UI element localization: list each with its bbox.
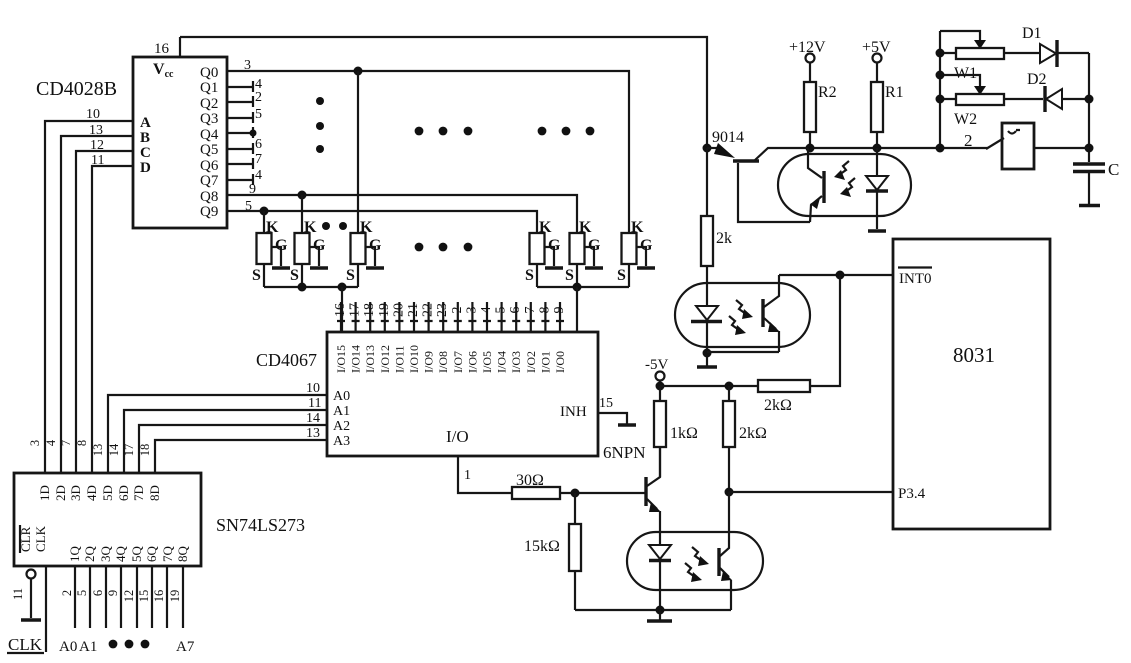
svg-text:CD4067: CD4067 xyxy=(256,350,317,370)
svg-text:19: 19 xyxy=(168,590,182,603)
potentiometer W1 xyxy=(940,31,1040,82)
svg-text:Q8: Q8 xyxy=(200,189,218,205)
svg-text:INT0: INT0 xyxy=(899,271,932,287)
svg-text:17: 17 xyxy=(348,303,363,317)
pin numbers of D inputs xyxy=(28,439,152,456)
svg-text:9: 9 xyxy=(106,590,120,596)
svg-text:6NPN: 6NPN xyxy=(603,443,646,462)
svg-text:10: 10 xyxy=(306,381,320,396)
pins I/O15..I/O0 of U2 top xyxy=(333,302,567,373)
svg-text:A0: A0 xyxy=(333,389,350,404)
svg-text:Q4: Q4 xyxy=(200,127,219,143)
svg-text:I/O11: I/O11 xyxy=(392,345,406,373)
svg-text:22: 22 xyxy=(421,303,436,317)
ground below O2 xyxy=(697,365,717,368)
node INT0 branch xyxy=(836,271,845,280)
node W2 loop xyxy=(936,71,945,80)
optocoupler O2 body xyxy=(675,283,810,347)
node left bus to CD4067 pin16 xyxy=(338,283,347,292)
svg-text:16: 16 xyxy=(154,41,170,57)
wire W bus left vertical xyxy=(939,31,941,148)
svg-text:6Q: 6Q xyxy=(144,546,159,563)
svg-text:4Q: 4Q xyxy=(113,546,128,563)
svg-text:B: B xyxy=(140,130,150,146)
svg-text:I/O13: I/O13 xyxy=(363,345,377,373)
diode inside O1 xyxy=(866,148,888,229)
pin stub Q5 xyxy=(227,137,262,154)
svg-text:2: 2 xyxy=(255,90,262,105)
wire right bus vertical D1 to capacitor xyxy=(1088,53,1090,162)
wire input D to 4D column xyxy=(92,166,133,473)
svg-text:20: 20 xyxy=(391,303,406,317)
pin stub Q4 xyxy=(227,127,257,138)
wire left key group bottom bus xyxy=(264,286,358,288)
svg-text:S: S xyxy=(525,267,534,284)
transistor 9014 PNP xyxy=(707,129,808,161)
labels A0 A1 ... A7 xyxy=(59,639,195,655)
svg-text:6: 6 xyxy=(91,590,105,596)
wire 7D to A2 xyxy=(139,425,327,473)
svg-text:A7: A7 xyxy=(176,639,195,655)
svg-text:16: 16 xyxy=(152,590,166,603)
svg-text:I/O12: I/O12 xyxy=(378,345,392,373)
wire 8D to A3 xyxy=(155,440,327,473)
svg-text:I/O3: I/O3 xyxy=(509,351,523,373)
node Q8/K2 junction xyxy=(298,191,307,200)
LED inside O2 xyxy=(691,283,722,366)
svg-text:21: 21 xyxy=(406,303,421,317)
wire -5V rail xyxy=(660,385,758,387)
resistor 15k ohm xyxy=(524,493,581,610)
svg-text:13: 13 xyxy=(306,426,320,441)
switch/relay box xyxy=(1002,123,1089,169)
svg-text:1kΩ: 1kΩ xyxy=(670,425,698,442)
svg-text:5: 5 xyxy=(255,107,262,122)
IC U4 8031 xyxy=(893,239,1050,529)
optocoupler O3 body xyxy=(627,532,763,590)
svg-text:4D: 4D xyxy=(84,485,99,501)
svg-text:8D: 8D xyxy=(147,485,162,501)
node R2 bottom xyxy=(806,144,815,153)
svg-text:W2: W2 xyxy=(954,111,977,128)
svg-text:8031: 8031 xyxy=(953,343,995,367)
wire O3 bottom bus xyxy=(575,609,731,611)
pin stub Q1 xyxy=(227,77,262,92)
wire to P3.4 of 8031 xyxy=(729,491,893,493)
svg-text:A: A xyxy=(140,115,151,131)
svg-text:15: 15 xyxy=(137,590,151,603)
pin stub Q6 xyxy=(227,152,262,169)
svg-text:8Q: 8Q xyxy=(175,546,190,563)
svg-text:11: 11 xyxy=(308,396,321,411)
svg-text:10: 10 xyxy=(86,107,100,122)
svg-text:D2: D2 xyxy=(1027,71,1047,88)
diode D1 xyxy=(1022,25,1089,67)
svg-text:K: K xyxy=(304,219,317,236)
wire Q8 rail to K5 column xyxy=(227,195,577,233)
resistor 1k ohm xyxy=(654,386,698,477)
svg-text:17: 17 xyxy=(122,444,136,457)
svg-text:S: S xyxy=(617,267,626,284)
svg-text:16: 16 xyxy=(333,303,348,317)
wire 5D to A0 xyxy=(108,395,327,473)
svg-text:1Q: 1Q xyxy=(67,546,82,563)
node W2 left xyxy=(936,95,945,104)
svg-text:I/O: I/O xyxy=(446,427,469,446)
svg-text:A0: A0 xyxy=(59,639,77,655)
svg-text:G: G xyxy=(369,237,382,254)
wire base of 9014 to optocoupler O1 emitter xyxy=(738,163,810,222)
wire Q9 rail to K4 column xyxy=(227,211,537,233)
ground below O3 xyxy=(647,610,672,621)
svg-text:2: 2 xyxy=(60,590,74,596)
svg-text:P3.4: P3.4 xyxy=(898,486,926,502)
IC U2 CD4067 xyxy=(256,332,598,456)
svg-text:Q7: Q7 xyxy=(200,173,219,189)
pin stub Q3 xyxy=(227,107,262,123)
ellipsis dots in key row middle xyxy=(415,243,473,252)
svg-text:I/O7: I/O7 xyxy=(451,351,465,373)
node K2 on left bus xyxy=(298,283,307,292)
svg-text:18: 18 xyxy=(138,444,152,457)
IC U1 CD4028B xyxy=(36,57,227,228)
pin 16 Vcc stub of U1 xyxy=(154,37,180,57)
svg-text:A3: A3 xyxy=(333,434,350,449)
wire input B to 2D column xyxy=(61,136,133,473)
svg-text:2: 2 xyxy=(964,131,973,150)
svg-text:4: 4 xyxy=(44,439,58,446)
svg-text:5: 5 xyxy=(494,307,509,314)
ellipsis dots between K2 and K3 xyxy=(322,222,347,230)
svg-text:I/O15: I/O15 xyxy=(334,345,348,373)
pin labels 1Q-8Q of U3 xyxy=(67,546,190,563)
resistor R1 xyxy=(862,39,904,148)
svg-text:G: G xyxy=(588,237,601,254)
wire O2 collector to INT0 of 8031 xyxy=(779,274,893,276)
svg-text:D: D xyxy=(140,160,151,176)
svg-text:I/O10: I/O10 xyxy=(407,345,421,373)
svg-text:12: 12 xyxy=(122,590,136,603)
svg-text:30Ω: 30Ω xyxy=(516,472,544,489)
pin stub Q7 xyxy=(227,168,262,185)
svg-text:9014: 9014 xyxy=(712,129,744,146)
svg-text:2Q: 2Q xyxy=(82,546,97,563)
svg-text:S: S xyxy=(290,267,299,284)
svg-text:2kΩ: 2kΩ xyxy=(764,397,792,414)
svg-text:G: G xyxy=(640,237,653,254)
phototransistor inside O3 xyxy=(685,492,732,610)
svg-text:15: 15 xyxy=(599,396,613,411)
capacitor C xyxy=(1073,160,1119,204)
ground below capacitor C xyxy=(1079,204,1100,207)
svg-text:7: 7 xyxy=(59,440,73,446)
svg-text:G: G xyxy=(548,237,561,254)
wires Q outputs of U3 xyxy=(75,566,183,628)
svg-text:3D: 3D xyxy=(68,485,83,501)
node O3 ground xyxy=(656,606,665,615)
key unit K3 xyxy=(346,71,384,287)
svg-text:-5V: -5V xyxy=(645,357,668,373)
svg-text:K: K xyxy=(631,219,644,236)
pin 1 common I/O of U2 xyxy=(458,456,512,493)
svg-text:G: G xyxy=(313,237,326,254)
svg-text:3: 3 xyxy=(464,307,479,314)
node D2 right xyxy=(1085,95,1094,104)
svg-text:R1: R1 xyxy=(885,84,904,101)
phototransistor inside O2 xyxy=(729,275,780,335)
svg-text:W1: W1 xyxy=(954,65,977,82)
resistor 2k ohm vertical xyxy=(723,386,767,492)
svg-text:K: K xyxy=(539,219,552,236)
key unit K6 xyxy=(617,219,655,287)
label CLK underlined xyxy=(7,635,44,654)
wire 6D to A1 xyxy=(124,410,327,473)
wire right key group bottom bus xyxy=(537,286,629,288)
diode D2 xyxy=(1027,71,1089,112)
pin 1 CLR bubble and ground xyxy=(11,570,41,621)
optocoupler O1 body xyxy=(778,154,911,216)
svg-text:K: K xyxy=(266,219,279,236)
svg-text:G: G xyxy=(275,237,288,254)
svg-text:S: S xyxy=(346,267,355,284)
svg-text:2: 2 xyxy=(450,307,465,314)
node collector 2k junction P3.4 xyxy=(725,488,734,497)
svg-text:2D: 2D xyxy=(53,485,68,501)
svg-text:2k: 2k xyxy=(716,230,732,247)
svg-text:Q1: Q1 xyxy=(200,80,218,96)
svg-text:I/O5: I/O5 xyxy=(480,351,494,373)
svg-text:8: 8 xyxy=(537,307,552,314)
svg-text:Q2: Q2 xyxy=(200,96,218,112)
svg-text:7: 7 xyxy=(523,307,538,314)
svg-text:1: 1 xyxy=(464,468,471,483)
svg-text:1D: 1D xyxy=(37,485,52,501)
resistor R2 xyxy=(789,39,837,148)
node Q0/K3 junction xyxy=(354,67,363,76)
wire O2 emitter return xyxy=(707,331,779,352)
svg-text:5Q: 5Q xyxy=(129,546,144,563)
svg-text:Q0: Q0 xyxy=(200,65,218,81)
svg-text:6: 6 xyxy=(508,307,523,314)
svg-text:I/O6: I/O6 xyxy=(465,351,479,373)
svg-text:I/O9: I/O9 xyxy=(422,351,436,373)
svg-text:18: 18 xyxy=(362,303,377,317)
svg-text:3: 3 xyxy=(244,58,251,73)
svg-text:Q6: Q6 xyxy=(200,158,219,174)
svg-text:INH: INH xyxy=(560,404,587,420)
node K5 on right bus xyxy=(573,283,582,292)
terminal -5V xyxy=(645,357,668,386)
svg-text:5D: 5D xyxy=(100,485,115,501)
IC U3 SN74LS273 xyxy=(14,473,305,566)
svg-text:6D: 6D xyxy=(116,485,131,501)
svg-text:K: K xyxy=(579,219,592,236)
svg-text:2kΩ: 2kΩ xyxy=(739,425,767,442)
svg-text:SN74LS273: SN74LS273 xyxy=(216,515,305,535)
ground below O1 diode xyxy=(868,229,886,232)
svg-text:I/O2: I/O2 xyxy=(524,351,538,373)
key unit K5 xyxy=(565,219,603,287)
svg-text:15kΩ: 15kΩ xyxy=(524,538,560,555)
wire input C to 3D column xyxy=(76,151,133,473)
svg-text:I/O1: I/O1 xyxy=(538,351,552,373)
key unit K2 xyxy=(290,195,328,287)
svg-text:A1: A1 xyxy=(333,404,350,419)
svg-text:4: 4 xyxy=(255,168,262,183)
svg-text:14: 14 xyxy=(107,443,121,456)
node Q9/K1 junction xyxy=(260,207,269,216)
svg-text:I/O0: I/O0 xyxy=(553,351,567,373)
svg-text:4: 4 xyxy=(479,307,494,314)
svg-text:R2: R2 xyxy=(818,84,837,101)
svg-text:I/O14: I/O14 xyxy=(349,345,363,373)
svg-text:I/O8: I/O8 xyxy=(436,351,450,373)
pin stub Q2 xyxy=(227,90,262,107)
svg-text:8: 8 xyxy=(75,440,89,446)
svg-text:K: K xyxy=(360,219,373,236)
svg-text:C: C xyxy=(140,145,151,161)
wire Q0 rail to K6 column xyxy=(227,71,629,233)
resistor 30 ohm xyxy=(512,472,646,499)
key unit K1 xyxy=(252,211,290,287)
svg-text:S: S xyxy=(252,267,261,284)
svg-text:D1: D1 xyxy=(1022,25,1042,42)
svg-text:CLK: CLK xyxy=(33,525,48,552)
node 30 ohm / 15k junction xyxy=(571,489,580,498)
svg-text:9: 9 xyxy=(552,307,567,314)
svg-text:3: 3 xyxy=(28,440,42,446)
node O2 LED cathode / emitter return xyxy=(703,349,712,358)
pin labels 1D-8D of U3 xyxy=(37,485,162,501)
pin CLR of U3 with overline xyxy=(18,525,33,553)
svg-text:11: 11 xyxy=(11,588,25,600)
node W1 left xyxy=(936,49,945,58)
pin numbers of Q outputs xyxy=(60,590,182,603)
LED inside O3 xyxy=(649,545,671,610)
key unit K4 xyxy=(525,219,563,287)
wire INT0 node down to 2k ohm resistor xyxy=(810,275,840,386)
svg-text:7D: 7D xyxy=(131,485,146,501)
svg-text:CLK: CLK xyxy=(8,635,43,654)
wire left bus down to CD4067 I/O15 pin xyxy=(341,287,343,332)
node W bus on rail xyxy=(936,144,945,153)
node rail right end xyxy=(1085,144,1094,153)
svg-text:7Q: 7Q xyxy=(160,546,175,563)
wire right bus down to CD4067 top edge xyxy=(576,287,578,332)
svg-text:Q3: Q3 xyxy=(200,111,218,127)
svg-text:14: 14 xyxy=(306,411,320,426)
transistor Q2 6NPN xyxy=(603,443,661,545)
ellipsis dots right top xyxy=(538,127,595,136)
resistor 2k ohm horizontal xyxy=(758,380,810,414)
svg-text:19: 19 xyxy=(377,303,392,317)
svg-text:7: 7 xyxy=(255,152,262,167)
svg-text:Q9: Q9 xyxy=(200,204,218,220)
potentiometer W2 xyxy=(940,75,1043,128)
svg-text:23: 23 xyxy=(435,303,450,317)
ellipsis dots middle top xyxy=(415,127,473,136)
wire input A to 1D column xyxy=(45,121,133,473)
svg-text:I/O4: I/O4 xyxy=(495,351,509,373)
svg-text:C: C xyxy=(1108,160,1119,179)
node R1 bottom xyxy=(873,144,882,153)
svg-text:A1: A1 xyxy=(79,639,97,655)
svg-text:S: S xyxy=(565,267,574,284)
node -5V xyxy=(656,382,665,391)
pin 15 INH of U2 xyxy=(560,396,636,425)
svg-text:5: 5 xyxy=(75,590,89,596)
svg-text:6: 6 xyxy=(255,137,262,152)
switch lever into box xyxy=(986,138,1004,149)
svg-text:13: 13 xyxy=(91,444,105,457)
phototransistor inside O1 xyxy=(808,148,855,222)
resistor 2k xyxy=(701,148,732,283)
svg-text:3Q: 3Q xyxy=(98,546,113,563)
pin 11 CLK wire xyxy=(45,566,47,652)
ellipsis dots vertical near Q outputs xyxy=(316,97,324,153)
svg-text:A2: A2 xyxy=(333,419,350,434)
wire +12V/+5V rail xyxy=(808,147,988,149)
svg-text:Q5: Q5 xyxy=(200,142,218,158)
node 9014 emitter junction xyxy=(703,144,712,153)
svg-text:CD4028B: CD4028B xyxy=(36,78,117,100)
node 2k ohm vertical top xyxy=(725,382,734,391)
wire Vcc rail from pin16 to +12V node column xyxy=(180,37,707,148)
